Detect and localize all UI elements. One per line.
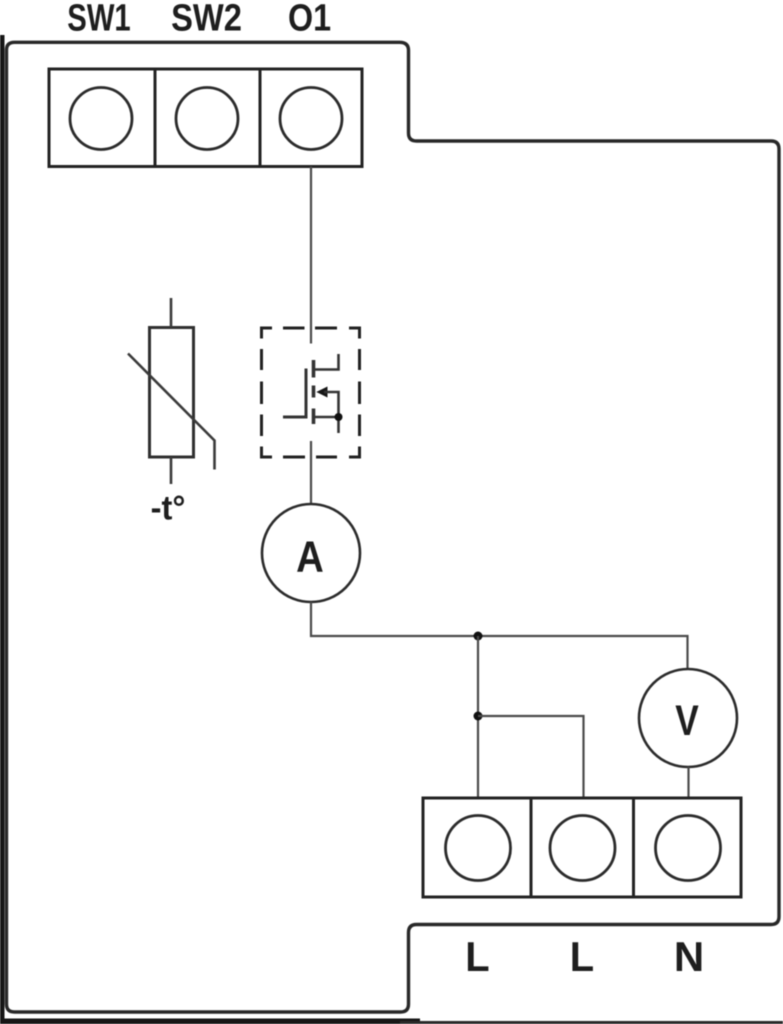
terminal L screw (446, 816, 511, 881)
MOSFET Q1 body arrow (318, 387, 339, 417)
svg-text:SW2: SW2 (171, 0, 242, 39)
terminal L2 screw (550, 816, 615, 881)
voltmeter V (639, 669, 737, 767)
label SW2 (171, 0, 242, 39)
MOSFET Q1 source lead (314, 417, 339, 433)
thermistor -t° body (128, 328, 215, 470)
svg-text:A: A (296, 532, 324, 581)
MOSFET Q1 drain lead (314, 354, 339, 370)
MOSFET Q1 gate (283, 369, 306, 418)
label N (674, 933, 704, 980)
wire ammeter to L node (311, 602, 688, 669)
svg-text:V: V (675, 697, 699, 745)
terminal block TB2 (bottom, L/L/N) (423, 798, 741, 897)
terminal SW2 screw (176, 88, 238, 150)
label O1 (288, 0, 331, 39)
ammeter A (262, 504, 360, 602)
wire node to terminal L (477, 636, 479, 798)
terminal N screw (656, 816, 721, 881)
MOSFET source junction (335, 413, 343, 421)
svg-text:O1: O1 (288, 0, 331, 39)
MOSFET Q1 channel (312, 360, 316, 424)
label L2 (570, 933, 594, 980)
label L (465, 933, 489, 980)
terminal SW1 screw (70, 88, 132, 150)
junction node L1 (474, 632, 483, 641)
wire O1 to switch box (310, 167, 312, 344)
wire switch box to ammeter (310, 441, 312, 504)
wire branch to terminal L2 (478, 716, 584, 798)
svg-text:L: L (465, 933, 489, 980)
thermistor bottom lead (170, 457, 173, 484)
thermistor top lead (170, 298, 173, 328)
junction node L2 (474, 712, 483, 721)
svg-text:L: L (570, 933, 594, 980)
page border bar left (0, 35, 5, 1024)
wire voltmeter to terminal N (687, 767, 689, 798)
terminal block TB1 (top, SW1/SW2/O1) (49, 69, 362, 167)
label SW1 (67, 0, 130, 39)
svg-text:N: N (674, 933, 704, 980)
terminal O1 screw (280, 88, 342, 150)
page border bar bottom (0, 1019, 783, 1024)
svg-text:-t°: -t° (151, 490, 186, 528)
svg-text:SW1: SW1 (67, 0, 130, 39)
label -t° (151, 490, 186, 528)
dashed switch box (262, 328, 360, 457)
